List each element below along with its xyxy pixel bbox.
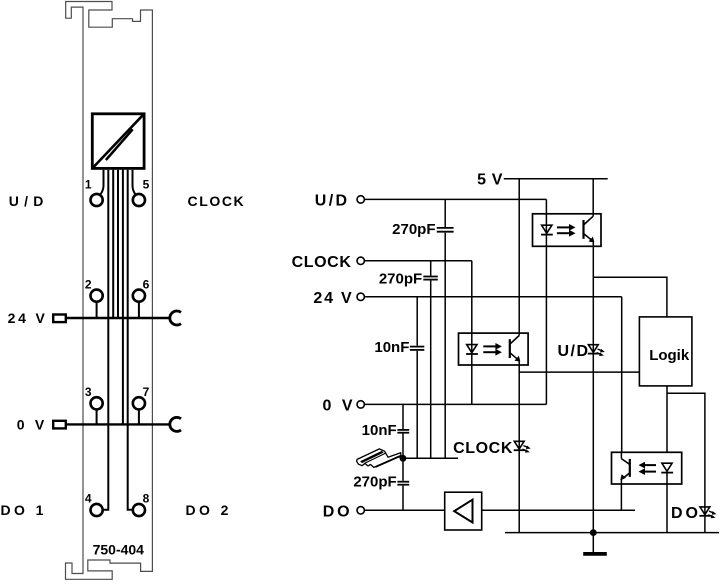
wire Logik bottom to opto3 LED [666,386,668,452]
svg-text:270pF: 270pF [379,270,422,287]
optocoupler OK1 box [533,214,602,247]
capacitor C5 wire lower to DO line [402,486,404,511]
svg-text:0 V: 0 V [322,398,355,415]
0V terminal square [53,421,66,429]
wire w3 square to 24V line [112,170,114,318]
OK1 LED triangle [542,225,552,233]
svg-text:Logik: Logik [649,347,690,364]
pin 8 [133,504,145,516]
OK3 light arrows pointing left [639,462,657,475]
terminal 24V [357,293,364,300]
svg-text:750-404: 750-404 [93,541,145,557]
wire DO line right [482,509,635,511]
capacitor C3 10nF wire upper [416,297,418,346]
capacitor C5 plates [397,482,409,485]
capacitor C3 plates [410,347,424,350]
svg-text:24 V: 24 V [313,290,353,307]
OK1 LED cathode bar [541,234,553,236]
bottom rail line [505,532,719,534]
terminal 0V [357,401,364,408]
capacitor C2 270pF wire upper [430,261,432,276]
junction dot ground [590,529,597,536]
OK3 transistor mirrored [620,459,630,480]
svg-text:DO 1: DO 1 [1,502,47,518]
wire DO line left [365,509,445,511]
capacitor C2 wire lower to rail [430,281,432,459]
wire OK1 emitter down to ground dot [592,241,594,533]
wire rail collector line [403,457,458,459]
DIN rail icon [357,449,404,468]
OK1 transistor [584,216,595,242]
wire w5 square to 0V line [122,170,124,425]
wire 24V down to opto3 collector [621,297,623,453]
OK2 transistor [510,336,521,362]
wire OK2 emitter branch to Logik left [519,371,639,373]
capacitor C2 plates [423,277,438,280]
svg-text:CLOCK: CLOCK [188,193,246,209]
electronics square U1 [92,114,144,169]
svg-text:5 V: 5 V [477,172,503,189]
24V contact crescent [170,311,181,325]
svg-text:0 V: 0 V [17,416,48,432]
indicator LED DO [699,507,716,518]
pin 4 [91,504,103,516]
wire OK1 collector to 5V [592,179,594,216]
svg-text:CLOCK: CLOCK [292,254,352,271]
wire 0V line [365,403,547,405]
capacitor C5 270pF wire upper [402,458,404,481]
wire w6 square to pin 8 [128,170,133,510]
OK2 LED triangle [467,345,477,353]
capacitor C1 plates [437,228,454,232]
svg-text:U/D: U/D [557,343,589,360]
pin 7 [133,397,145,424]
svg-text:6: 6 [143,277,150,291]
wire OK3 LED cathode to bottom rail [666,473,668,533]
OK1 light arrows [557,224,576,237]
driver box [445,492,482,530]
svg-text:1: 1 [85,178,92,192]
svg-text:270pF: 270pF [392,221,435,238]
pin 5 [133,194,145,206]
capacitor C4 wire lower to rail dot [402,434,404,459]
svg-text:10nF: 10nF [374,339,409,356]
junction dot rail [400,455,407,462]
wire CLOCK to opto2 LED down to 0V line [471,261,473,405]
wire OK2 collector to 5V [518,179,520,336]
wire CLOCK line [365,260,472,262]
OK3 LED cathode bar [661,472,673,474]
svg-text:U/D: U/D [9,193,49,209]
svg-text:7: 7 [143,385,150,399]
terminal U/D [357,196,364,203]
capacitor C4 10nF wire upper [402,404,404,429]
wire OK1 emitter branch to Logik top [593,277,667,317]
OK2 LED cathode bar [466,353,478,355]
capacitor C1 270pF wire upper [444,199,446,227]
wire OK3 emitter to DO line [620,479,622,510]
optocoupler OK2 box [459,333,529,365]
24V feed line [67,317,171,319]
svg-text:24 V: 24 V [8,310,48,326]
driver triangle [454,500,472,523]
svg-text:2: 2 [85,277,92,291]
pin 1 [91,194,103,206]
wire OK3 collector entry [620,452,622,458]
OK2 light arrows [483,343,502,356]
wire w1 square to pin 1 [100,170,103,195]
pin 3 [91,397,103,424]
capacitor C4 plates [397,430,409,433]
wire 24V line [365,296,622,298]
svg-text:DO: DO [323,504,353,521]
24V terminal square [53,315,66,323]
indicator LED CLOCK [514,441,531,452]
pin 2 [91,290,103,318]
capacitor C3 wire lower to rail [416,351,418,459]
svg-text:270pF: 270pF [353,474,396,491]
svg-text:10nF: 10nF [362,422,397,439]
wire w2 square to pin 4 [103,170,109,510]
indicator LED U/D [588,345,605,356]
svg-text:3: 3 [85,385,92,399]
svg-text:5: 5 [143,178,150,192]
svg-text:DO 2: DO 2 [186,502,232,518]
wire w7 square to pin 5 [133,170,136,195]
terminal DO [357,507,364,514]
wire w4 square to 24V line [117,170,119,318]
svg-text:U/D: U/D [315,193,350,210]
0V feed line [67,423,171,425]
wire Logik output branch to DO LED [667,393,705,532]
optocoupler OK3 box [612,452,682,484]
wire U/D line [365,198,547,200]
svg-text:8: 8 [143,492,150,506]
svg-text:DO: DO [671,505,701,522]
Logik box [639,317,692,386]
terminal CLOCK [357,257,364,264]
module 750-404 body outline [66,2,153,580]
OK3 LED triangle [662,463,672,471]
capacitor C1 wire lower to rail [444,233,446,458]
pin 6 [133,290,145,318]
5V rail [504,178,608,180]
wire U/D to opto1 LED down to 0V line [545,199,547,404]
ground symbol [583,533,607,554]
0V contact crescent [170,417,181,431]
wire OK2 emitter down to bottom rail [518,360,520,533]
svg-text:CLOCK: CLOCK [453,440,513,457]
svg-text:4: 4 [85,492,92,506]
